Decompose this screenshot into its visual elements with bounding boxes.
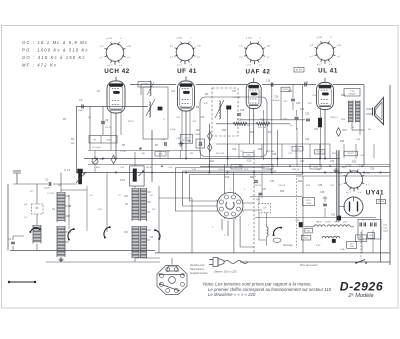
svg-text:UCH 42: UCH 42 [104, 68, 130, 75]
svg-text:PO: PO [30, 191, 33, 193]
svg-text:Le deuxième « «: Le deuxième « « « « 220 [208, 292, 256, 297]
svg-text:g 150: g 150 [107, 38, 113, 40]
svg-text:C37: C37 [262, 189, 267, 191]
svg-text:IN 309: IN 309 [296, 69, 303, 71]
svg-text:C30 0,1: C30 0,1 [330, 117, 338, 119]
svg-text:C32: C32 [330, 161, 335, 163]
svg-text:C1 250: C1 250 [47, 193, 55, 195]
svg-text:UF41: UF41 [334, 222, 338, 224]
svg-text:C31: C31 [300, 161, 305, 163]
svg-text:Prise de courant: Prise de courant [300, 264, 318, 267]
svg-text:220pF: 220pF [44, 188, 51, 190]
svg-text:a 0,7: a 0,7 [317, 64, 323, 66]
svg-text:4700: 4700 [246, 155, 250, 157]
svg-text:R25: R25 [352, 162, 357, 164]
svg-text:R3 2k: R3 2k [128, 121, 135, 123]
svg-text:C25: C25 [247, 161, 252, 163]
svg-text:UY41: UY41 [366, 190, 384, 197]
svg-text:C4 0,1µF: C4 0,1µF [92, 147, 101, 149]
svg-text:UAF42: UAF42 [316, 221, 322, 224]
svg-text:R19: R19 [341, 95, 346, 97]
svg-text:C37 50: C37 50 [278, 185, 286, 187]
svg-text:UAF 42: UAF 42 [246, 69, 271, 76]
svg-text:GO: GO [24, 204, 28, 206]
svg-text:C20: C20 [288, 91, 293, 93]
svg-text:C17: C17 [232, 91, 237, 93]
svg-text:g 150: g 150 [317, 37, 323, 39]
svg-text:R13: R13 [260, 119, 265, 122]
svg-text:C15: C15 [200, 117, 205, 119]
svg-text:Nota: Les tensions sont prises: Nota: Les tensions sont prises par rappo… [203, 282, 312, 287]
svg-text:C7 50: C7 50 [120, 151, 127, 153]
svg-text:C24: C24 [300, 109, 305, 111]
svg-text:C21: C21 [283, 119, 288, 121]
svg-text:C3: C3 [79, 98, 83, 102]
svg-text:g 150: g 150 [177, 37, 183, 39]
svg-text:R24 2k: R24 2k [292, 169, 300, 171]
svg-text:PO : 1600 Kc à 510 Kc: PO : 1600 Kc à 510 Kc [22, 48, 89, 53]
svg-text:R22: R22 [298, 181, 303, 183]
svg-text:56kΩ: 56kΩ [106, 140, 112, 142]
svg-text:R11 47k: R11 47k [216, 153, 225, 155]
svg-text:50pF: 50pF [78, 110, 84, 112]
svg-text:IN 310: IN 310 [378, 201, 385, 203]
svg-text:C5 47: C5 47 [105, 127, 112, 129]
svg-text:C29: C29 [225, 177, 230, 179]
svg-text:D-2926: D-2926 [340, 280, 384, 294]
svg-text:R12: R12 [237, 119, 242, 122]
svg-text:C36: C36 [318, 185, 323, 187]
svg-text:UF 41: UF 41 [177, 68, 197, 75]
svg-text:Douilles pour: Douilles pour [190, 264, 205, 267]
svg-text:UL 41: UL 41 [318, 68, 338, 75]
svg-text:C17 50: C17 50 [233, 97, 241, 99]
svg-text:Secteur 110 ou 220: Secteur 110 ou 220 [214, 270, 237, 274]
svg-text:R20 150: R20 150 [266, 151, 275, 153]
svg-text:C35: C35 [370, 169, 375, 171]
svg-text:R19 1k: R19 1k [254, 185, 262, 187]
svg-text:C26: C26 [274, 96, 279, 99]
svg-text:g 150: g 150 [246, 37, 252, 39]
svg-text:GO : 418 Kc à 150 Kc: GO : 418 Kc à 150 Kc [22, 55, 86, 60]
svg-text:OC : 18,1 Mc à 5,9 Mc: OC : 18,1 Mc à 5,9 Mc [22, 40, 88, 45]
svg-text:MF : 472 Kc: MF : 472 Kc [22, 63, 57, 68]
svg-text:0,1µF: 0,1µF [170, 129, 176, 131]
svg-text:R16: R16 [343, 130, 348, 132]
svg-text:R23: R23 [340, 141, 345, 143]
svg-text:C31: C31 [314, 129, 319, 131]
svg-text:4700pF: 4700pF [348, 94, 356, 96]
svg-text:a 0,7: a 0,7 [107, 65, 113, 67]
svg-text:1kΩ: 1kΩ [71, 143, 75, 145]
svg-text:R10: R10 [222, 130, 227, 132]
svg-text:C.V.1: C.V.1 [64, 168, 71, 172]
svg-text:C41: C41 [331, 215, 336, 217]
svg-text:C26: C26 [305, 139, 310, 141]
svg-text:12kΩ: 12kΩ [306, 203, 312, 205]
svg-text:Haut-Parleur: Haut-Parleur [190, 268, 204, 271]
svg-text:6,3V: 6,3V [316, 245, 321, 247]
svg-text:UL41: UL41 [343, 222, 347, 224]
svg-text:Supplémentaire: Supplémentaire [190, 272, 208, 275]
svg-text:R14: R14 [196, 130, 201, 132]
svg-text:CV2: CV2 [120, 179, 125, 182]
svg-text:a 0,7: a 0,7 [346, 192, 352, 194]
svg-text:2ᵉ Modèle: 2ᵉ Modèle [347, 293, 373, 299]
svg-text:C34: C34 [270, 181, 275, 183]
svg-text:a 0,7: a 0,7 [246, 65, 252, 67]
svg-text:4700pF: 4700pF [273, 100, 281, 102]
svg-text:HP: HP [368, 129, 372, 131]
svg-text:R26: R26 [280, 191, 285, 193]
svg-text:C22: C22 [232, 149, 237, 151]
svg-text:R5 1M: R5 1M [146, 167, 153, 169]
svg-text:C19: C19 [266, 81, 271, 83]
svg-text:IN 302: IN 302 [141, 84, 148, 86]
svg-text:R17: R17 [268, 132, 273, 134]
svg-text:C23: C23 [296, 103, 301, 105]
svg-text:0,3A: 0,3A [340, 248, 345, 251]
svg-text:R15 1M: R15 1M [258, 127, 266, 129]
svg-text:IN 317: IN 317 [348, 153, 355, 155]
svg-text:R15: R15 [250, 132, 255, 134]
svg-text:UCH42: UCH42 [325, 222, 331, 224]
svg-text:C28: C28 [272, 154, 277, 156]
svg-text:50µF: 50µF [383, 231, 389, 233]
svg-text:Allumage: Allumage [282, 244, 293, 247]
svg-text:4700: 4700 [158, 154, 162, 156]
svg-text:C30: C30 [305, 114, 310, 116]
svg-text:AVC: AVC [96, 166, 101, 169]
svg-text:C18: C18 [240, 109, 245, 112]
svg-text:1kΩ: 1kΩ [350, 246, 354, 248]
svg-text:1MΩ: 1MΩ [195, 134, 200, 136]
svg-text:47pF: 47pF [198, 145, 203, 147]
svg-text:C38: C38 [320, 192, 325, 194]
svg-text:OC: OC [24, 217, 28, 219]
svg-text:a 0,7: a 0,7 [177, 65, 183, 67]
